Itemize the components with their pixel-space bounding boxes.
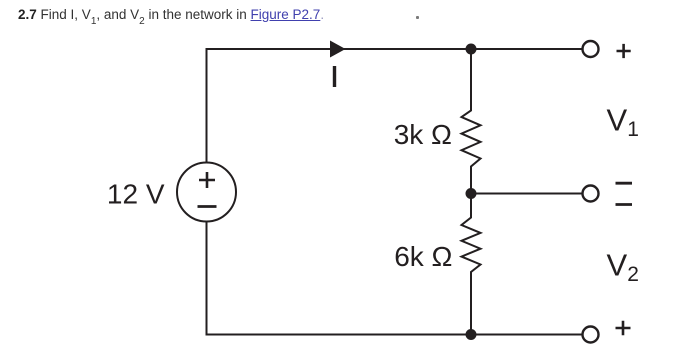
svg-text:6k Ω: 6k Ω bbox=[394, 241, 452, 272]
wire: left vertical lower (source bottom to bottom wire) bbox=[206, 222, 208, 336]
problem statement text bbox=[18, 7, 324, 26]
plus sign top right (V1 +) bbox=[617, 44, 631, 58]
terminal bottom open circle bbox=[583, 327, 599, 343]
resistor R2 6k ohm bbox=[462, 194, 481, 335]
plus sign bottom right (V2 +) bbox=[616, 321, 631, 336]
minus sign for V1 (upper dash) bbox=[616, 182, 633, 185]
current arrow I on top wire bbox=[330, 41, 346, 58]
svg-text:3k Ω: 3k Ω bbox=[394, 119, 452, 150]
resistor R1 3k ohm bbox=[462, 49, 481, 194]
wire: left vertical upper (source top to top wire) bbox=[206, 48, 208, 163]
voltage source V=12V circle bbox=[177, 163, 236, 222]
svg-text:V1: V1 bbox=[607, 103, 639, 142]
terminal top open circle bbox=[583, 41, 599, 57]
wire: bottom horizontal bbox=[206, 334, 583, 336]
node junction top bbox=[466, 44, 477, 55]
terminal middle open circle bbox=[583, 186, 599, 202]
wire: middle horizontal (node to terminal) bbox=[471, 193, 583, 195]
source plus sign bbox=[199, 172, 215, 188]
stray speck bbox=[416, 16, 419, 19]
node junction middle bbox=[466, 188, 477, 199]
minus sign for V2 (lower dash) bbox=[616, 203, 633, 206]
label I bbox=[333, 66, 336, 87]
svg-text:12 V: 12 V bbox=[107, 179, 165, 210]
source minus sign bbox=[198, 205, 217, 208]
node junction bottom bbox=[466, 329, 477, 340]
wire: top horizontal from source to terminal bbox=[207, 48, 583, 50]
svg-text:V2: V2 bbox=[607, 248, 639, 287]
